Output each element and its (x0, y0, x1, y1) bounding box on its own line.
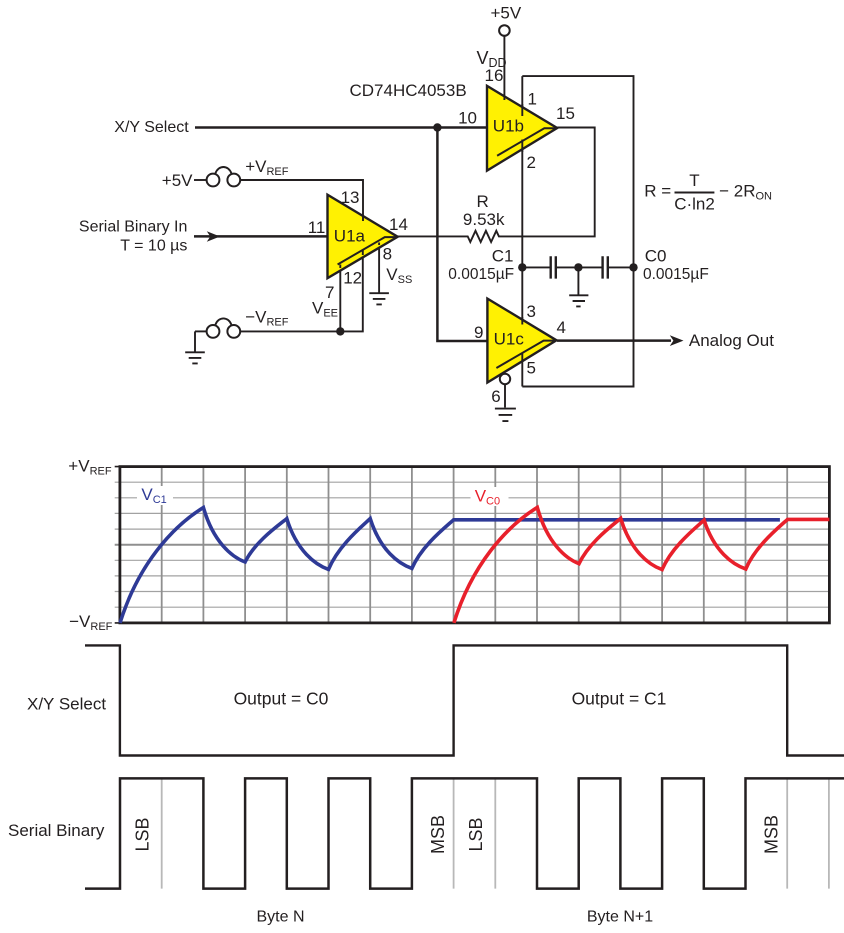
svg-text:11: 11 (308, 218, 326, 237)
svg-text:X/Y Select: X/Y Select (114, 119, 189, 136)
svg-text:14: 14 (389, 215, 408, 234)
svg-text:T: T (689, 171, 699, 190)
svg-text:R: R (476, 192, 488, 211)
svg-text:+5V: +5V (162, 171, 193, 190)
svg-text:5: 5 (527, 358, 536, 377)
svg-text:13: 13 (341, 188, 360, 207)
svg-text:6: 6 (491, 387, 500, 406)
svg-text:1: 1 (528, 90, 537, 109)
svg-text:9: 9 (474, 323, 483, 342)
svg-text:12: 12 (343, 269, 362, 288)
svg-text:2: 2 (527, 153, 536, 172)
svg-text:R =: R = (644, 181, 671, 200)
svg-text:16: 16 (485, 66, 504, 85)
svg-text:U1a: U1a (334, 226, 366, 245)
svg-text:MSB: MSB (762, 815, 782, 854)
svg-text:T = 10 µs: T = 10 µs (120, 237, 187, 254)
svg-text:Serial Binary: Serial Binary (8, 821, 105, 840)
svg-text:3: 3 (527, 302, 536, 321)
svg-text:U1b: U1b (493, 117, 524, 136)
svg-text:4: 4 (557, 318, 566, 337)
svg-text:C·ln2: C·ln2 (674, 195, 715, 214)
svg-text:7: 7 (325, 283, 334, 302)
svg-text:MSB: MSB (428, 815, 448, 854)
svg-text:Serial Binary In: Serial Binary In (79, 219, 188, 236)
svg-text:8: 8 (383, 245, 392, 264)
svg-text:9.53k: 9.53k (463, 210, 505, 229)
svg-text:Output = C0: Output = C0 (234, 689, 329, 709)
svg-text:LSB: LSB (466, 817, 486, 851)
svg-text:CD74HC4053B: CD74HC4053B (350, 81, 467, 100)
svg-text:0.0015µF: 0.0015µF (448, 266, 514, 283)
svg-text:C0: C0 (645, 247, 667, 266)
svg-text:LSB: LSB (133, 817, 153, 851)
svg-text:X/Y Select: X/Y Select (27, 695, 106, 714)
svg-text:C1: C1 (492, 247, 514, 266)
svg-text:Output = C1: Output = C1 (572, 689, 667, 709)
svg-text:U1c: U1c (494, 330, 525, 349)
svg-text:Byte N: Byte N (256, 909, 304, 926)
svg-text:0.0015µF: 0.0015µF (643, 266, 709, 283)
svg-text:10: 10 (458, 109, 477, 128)
svg-text:+5V: +5V (491, 4, 522, 23)
svg-text:Analog Out: Analog Out (689, 331, 774, 350)
svg-text:15: 15 (556, 104, 575, 123)
svg-text:Byte N+1: Byte N+1 (587, 909, 653, 926)
